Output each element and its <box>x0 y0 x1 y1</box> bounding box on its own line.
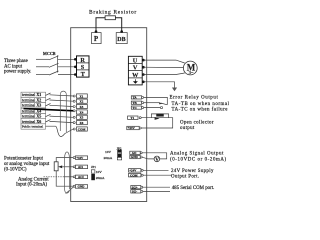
svg-text:10V: 10V <box>96 170 103 174</box>
terminal X4 label box <box>21 108 46 113</box>
svg-text:P: P <box>94 35 99 43</box>
svg-text:Braking Resistor: Braking Resistor <box>89 10 137 16</box>
MCCB pole 2 wire <box>36 66 49 68</box>
terminal +24V (supply) <box>129 169 141 173</box>
svg-text:24V Power Supply: 24V Power Supply <box>171 169 214 174</box>
svg-text:X2: X2 <box>80 100 84 104</box>
voltmeter <box>154 156 160 162</box>
24V wires <box>143 169 168 171</box>
svg-text:AI1: AI1 <box>78 165 83 169</box>
svg-text:TA-TC on when failure: TA-TC on when failure <box>172 108 228 113</box>
svg-text:W: W <box>132 72 139 79</box>
MCCB pole 1 blade <box>49 56 59 60</box>
svg-text:+24V: +24V <box>128 126 136 130</box>
switch X6 <box>46 120 51 122</box>
svg-text:or analog voltage input: or analog voltage input <box>4 162 50 167</box>
svg-text:Public terminal: Public terminal <box>22 125 44 129</box>
+24V terminal (open collector) <box>127 126 139 129</box>
svg-text:ACI: ACI <box>78 175 84 179</box>
svg-text:V: V <box>155 158 159 163</box>
terminal DB <box>116 33 127 44</box>
potentiometer <box>54 162 58 171</box>
svg-text:X5: X5 <box>80 116 84 120</box>
relay blade TB <box>161 103 168 105</box>
svg-text:output: output <box>180 126 195 131</box>
junction dot DB <box>120 30 123 33</box>
svg-text:terminal X5: terminal X5 <box>22 114 41 119</box>
terminal GND (AO) <box>130 155 140 158</box>
wire W to motor <box>143 73 184 75</box>
junction dot P <box>95 30 98 33</box>
UVW terminal strip <box>128 56 142 85</box>
svg-text:Y1: Y1 <box>130 116 134 120</box>
circle X4 <box>73 110 75 112</box>
switch X2 <box>46 98 51 100</box>
svg-text:COM: COM <box>130 173 138 177</box>
svg-text:GND: GND <box>78 185 86 189</box>
Public terminal label box <box>21 124 46 129</box>
svg-text:TB: TB <box>133 101 137 105</box>
svg-text:COM: COM <box>78 127 86 131</box>
TA terminal <box>131 96 141 99</box>
circle X5 <box>73 116 75 118</box>
AO wire <box>142 153 167 159</box>
terminal ACI <box>73 176 75 178</box>
terminal X3 label box <box>21 103 46 108</box>
svg-text:V: V <box>133 65 138 72</box>
MCCB pole 3 wire <box>36 74 49 76</box>
wire X3 <box>50 105 74 106</box>
circle COM <box>73 128 75 130</box>
TB terminal <box>131 101 141 104</box>
shield tie to GND <box>66 187 74 194</box>
terminal X1 label box <box>21 92 46 97</box>
svg-text:Output Port.: Output Port. <box>171 175 199 180</box>
svg-text:Potentiometer Input: Potentiometer Input <box>4 156 44 161</box>
svg-text:X1: X1 <box>80 94 84 98</box>
GND wire to meter <box>142 157 154 159</box>
svg-text:3~: 3~ <box>189 70 194 75</box>
wire X5 <box>50 116 74 117</box>
wire X1 <box>50 95 74 96</box>
load resistor <box>157 114 164 116</box>
motor M <box>183 61 197 75</box>
terminal COM box <box>77 127 88 131</box>
terminal GND (analog) <box>73 185 75 187</box>
svg-text:Open collector: Open collector <box>180 120 214 125</box>
circle X2 <box>73 100 75 102</box>
switch X3 <box>46 104 51 106</box>
dot S <box>74 66 77 69</box>
svg-text:485 Serial COM port.: 485 Serial COM port. <box>172 186 215 191</box>
terminal X5 box <box>77 115 88 119</box>
SG wires <box>143 186 170 188</box>
svg-text:GND: GND <box>131 155 139 159</box>
svg-text:Error Relay Output: Error Relay Output <box>170 96 219 101</box>
svg-text:X6: X6 <box>80 121 84 125</box>
terminal X4 box <box>77 110 88 114</box>
wire to R <box>58 58 75 60</box>
terminal X2 label box <box>21 97 46 102</box>
svg-text:S: S <box>81 64 85 71</box>
wire P to resistor <box>96 18 105 33</box>
ground arrow <box>172 88 177 92</box>
TA wire <box>144 97 168 104</box>
inverter main box <box>71 28 147 202</box>
wire to T <box>58 74 75 76</box>
MCCB pole 3 blade <box>49 71 59 75</box>
terminal SG+ <box>131 186 141 189</box>
terminal AI1 <box>73 166 75 168</box>
dot ground <box>142 81 145 84</box>
Y1 terminal <box>128 116 138 119</box>
diode arrow <box>155 117 160 120</box>
MCCB link bar <box>57 55 59 72</box>
svg-text:Input (0-20mA): Input (0-20mA) <box>16 183 47 188</box>
public wire with dip <box>46 126 74 136</box>
AI1 wire <box>62 166 73 168</box>
svg-text:+24V: +24V <box>129 169 137 173</box>
circle X3 <box>73 106 75 108</box>
svg-text:(0-10VDC or 0-20mA): (0-10VDC or 0-20mA) <box>170 157 227 162</box>
terminal X5 label box <box>21 113 46 118</box>
MCCB pole 2 blade <box>49 63 59 67</box>
braking resistor <box>105 16 115 20</box>
wire V to motor <box>143 66 183 68</box>
svg-text:10V: 10V <box>105 150 112 154</box>
terminal +10V <box>73 157 75 159</box>
pot wiper arrow <box>58 165 62 168</box>
thick wire X4 <box>24 109 75 111</box>
ground glyph in strip <box>134 79 136 82</box>
TC terminal <box>131 106 141 109</box>
JP1 jumper block <box>91 170 95 173</box>
dot V <box>142 66 145 69</box>
MCCB pole 1 wire <box>36 58 49 60</box>
wire U to motor <box>143 60 184 63</box>
svg-text:U: U <box>133 57 138 64</box>
terminal AO <box>130 151 140 154</box>
svg-text:power supply.: power supply. <box>4 70 31 75</box>
wire to S <box>58 66 75 68</box>
svg-text:+10V: +10V <box>76 156 84 160</box>
switch X5 <box>46 114 51 116</box>
dot R <box>74 58 77 61</box>
RST terminal strip <box>77 56 90 77</box>
switch X1 <box>46 93 51 95</box>
terminal X3 box <box>77 104 88 108</box>
wire X2 <box>50 100 74 101</box>
svg-text:TC: TC <box>133 106 137 110</box>
svg-text:20mA: 20mA <box>104 156 113 160</box>
svg-text:JP1: JP1 <box>91 165 96 169</box>
circle X6 <box>73 122 75 124</box>
svg-text:Analog Signal Output: Analog Signal Output <box>170 152 224 157</box>
dot W <box>142 73 145 76</box>
terminal COM (supply) <box>129 173 141 177</box>
dot T <box>74 73 77 76</box>
TB wire <box>144 102 159 104</box>
svg-text:20mA: 20mA <box>96 176 105 180</box>
svg-text:SG-: SG- <box>132 190 137 194</box>
svg-text:DB: DB <box>117 37 125 43</box>
terminal X2 box <box>77 99 88 103</box>
TC wire <box>144 107 161 109</box>
circle X1 <box>73 95 75 97</box>
wire X6 <box>50 121 74 122</box>
pot top link <box>56 158 73 162</box>
svg-text:X3: X3 <box>80 105 84 109</box>
svg-text:terminal X6: terminal X6 <box>22 119 41 124</box>
terminal SG- <box>131 190 141 193</box>
svg-text:terminal X3: terminal X3 <box>22 103 41 108</box>
terminal X6 label box <box>21 119 46 124</box>
X group shield loop <box>60 91 66 94</box>
open collector wire <box>140 118 173 128</box>
svg-text:TA-TB on when normal: TA-TB on when normal <box>172 102 230 107</box>
svg-text:Three phase: Three phase <box>4 59 28 64</box>
ACI wire dashed <box>44 176 65 178</box>
terminal P <box>92 33 102 44</box>
ground wire <box>143 82 174 89</box>
svg-text:MCCB: MCCB <box>43 51 56 56</box>
svg-text:R: R <box>80 57 85 64</box>
AI shield loop <box>65 152 70 158</box>
svg-text:(0-10VDC): (0-10VDC) <box>4 168 27 173</box>
terminal X6 box <box>77 121 88 125</box>
pot bottom link <box>56 171 73 186</box>
wire DB to resistor <box>115 18 121 33</box>
svg-text:X4: X4 <box>80 110 84 114</box>
svg-text:terminal X2: terminal X2 <box>22 97 41 102</box>
terminal X1 box <box>77 94 88 98</box>
load branch <box>151 114 168 118</box>
dot U <box>142 59 145 62</box>
